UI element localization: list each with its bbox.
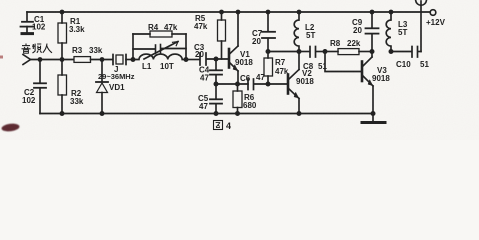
value label C7 20 [252,29,263,46]
value label R8 22k [330,39,361,48]
node: V3 base feed junction [323,49,328,54]
capacitor C8 [299,47,325,58]
node: V1 base junction [214,57,219,62]
scan artifact: red smudge bottom-left [1,123,20,133]
value label V2 9018 [296,69,314,86]
node: V2 collector junction [297,49,302,54]
value label C2 102 [22,88,36,105]
caption: 图 4 [214,121,223,130]
wire: emitter node (C4/C5 midpoint to R6/C6) [216,83,248,85]
node: rail junction for R1 [60,10,65,15]
resistor R1 [58,12,67,60]
value label C6 47 [240,73,265,83]
wire: tank to C3 [186,59,199,61]
transistor V3 [362,52,373,114]
node: V3 collector junction [370,49,375,54]
wire: ground rail [40,113,373,115]
node: ground junction V2 emitter [297,111,302,116]
node: rail junction for L2 [297,10,302,15]
scan noise overlay [0,0,1,1]
node: C2 tap junction [38,57,43,62]
wire: V3 base staircase [325,52,362,72]
node: rail junction for C9 [370,10,375,15]
resistor R4 [133,31,186,37]
value label R1 3.3k [69,17,85,34]
capacitor C2 [34,60,46,114]
value label L3 5T [398,20,408,37]
resistor R3 [74,57,91,63]
node: rail junction for R5 [219,10,224,15]
capacitor C7 [262,12,275,52]
wire: tank right riser [185,34,187,60]
antenna [416,1,427,6]
transistor V2 [288,52,299,114]
node: C4/C5 midpoint [214,82,219,87]
wire: R3 to crystal [91,59,113,61]
label +12V [426,18,446,27]
wire: tank left riser [132,34,134,60]
node: ground junction V3 emitter [371,111,376,116]
capacitor C5 [210,84,222,114]
node: ground junction VD1 [100,111,105,116]
resistor R6 [233,84,242,114]
varactor diode VD1 [96,60,108,114]
node: C7/R7 junction [266,49,271,54]
node: rail junction for C7 [266,10,271,15]
node: rail junction V1 collector [236,10,241,15]
crystal J [113,55,133,65]
value label R2 33k [70,89,84,106]
resistor R7 [264,52,273,85]
wire: audio input line [31,59,75,61]
wire: +12V top supply rail [27,11,430,13]
capacitor C6 [248,79,288,90]
value label C3 20 [194,43,205,59]
capacitor C10 [391,47,421,58]
resistor R5 [218,12,226,59]
node: tank right junction [184,57,189,62]
value label R7 47k [275,58,289,76]
resistor R8 [325,49,372,55]
power terminal +12V [430,10,436,16]
inductor L2 [294,12,299,52]
input terminal chevron [23,55,31,65]
node: L3 bottom junction [389,49,394,54]
value label C9 20 [352,18,363,35]
inductor L1 [133,54,186,59]
value label C1 [32,15,46,32]
node: R1/R2 divider junction [60,57,65,62]
label: 音频入 (audio input) hand strokes [22,44,53,54]
trimmer capacitor branch [133,45,186,54]
node: varactor junction [100,57,105,62]
value label C4 47 [199,66,210,83]
node: tank left junction [131,57,136,62]
wire: antenna riser [420,1,422,52]
value label V1 9018 [235,50,253,67]
value label L1 10T [142,62,174,71]
node: V2 base junction [266,82,271,87]
trimmer arrow [144,42,178,60]
capacitor C9 [366,12,379,52]
value label R5 47k [194,14,208,31]
ground (main, right end) [362,114,385,123]
value label R6 680 [243,93,257,110]
scan artifact: red tick left edge [0,56,3,59]
label: 音频入 (audio input) [0,0,1,1]
transistor V1 [229,12,238,84]
node: ground junction C5 [214,111,219,116]
value label R4 47k [148,23,178,32]
node: rail junction for L3 [389,10,394,15]
capacitor C1 [21,12,35,33]
capacitor C4 [210,59,222,84]
node: V1 emitter junction [235,82,240,87]
value label VD1 [109,83,125,92]
value label J 29~36MHz [98,65,135,81]
value label C8 51 [303,62,327,71]
value label C5 47 [198,94,209,111]
ground (below C1) [22,32,33,35]
capacitor C3 [200,53,228,65]
node: ground junction R6 [235,111,240,116]
value label L2 5T [305,23,315,40]
value label R3 33k [72,46,103,55]
value label C10 51 [396,60,429,69]
node: ground junction R2 [60,111,65,116]
resistor R2 [58,60,67,114]
wire: C7 node to V2 collector [268,51,299,53]
value label V3 9018 [372,66,390,83]
inductor L3 [386,12,391,52]
